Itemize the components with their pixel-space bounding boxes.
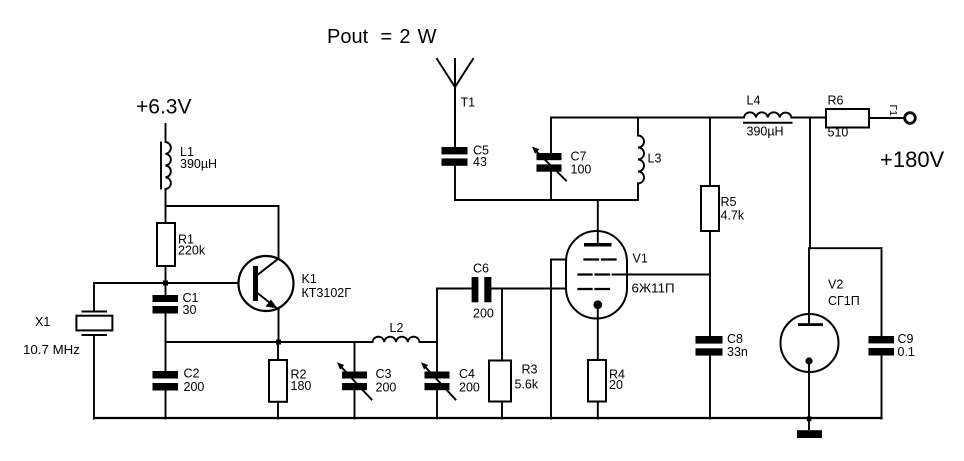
svg-text:+6.3V: +6.3V	[136, 96, 191, 119]
resistor R1	[157, 223, 175, 266]
svg-text:X1: X1	[35, 315, 50, 329]
wire V2 to C9 top	[810, 247, 882, 249]
wire emitter down	[278, 310, 280, 343]
ground	[797, 419, 822, 439]
wire L4 to R6	[792, 117, 827, 119]
resistor R4	[588, 360, 606, 419]
svg-text:33n: 33n	[727, 345, 748, 359]
capacitor C7 (variable)	[532, 147, 566, 181]
svg-text:220k: 220k	[178, 244, 206, 258]
svg-text:180: 180	[291, 379, 312, 393]
capacitor C2	[153, 342, 179, 419]
svg-text:100: 100	[571, 163, 592, 177]
svg-text:30: 30	[183, 303, 197, 317]
svg-text:L3: L3	[648, 152, 662, 166]
resistor R6	[826, 109, 869, 128]
node ground junction	[807, 416, 812, 421]
svg-text:C6: C6	[473, 262, 489, 276]
svg-text:V1: V1	[633, 252, 648, 266]
svg-text:+180V: +180V	[880, 147, 945, 172]
wire emitter rail	[166, 341, 373, 343]
svg-text:L2: L2	[390, 321, 404, 335]
wire base rail	[94, 282, 253, 284]
resistor R3	[489, 289, 511, 419]
tube V1	[566, 200, 627, 360]
svg-text:0.1: 0.1	[898, 345, 915, 359]
svg-text:V2: V2	[828, 278, 843, 292]
resistor R5	[701, 118, 719, 337]
svg-text:Г1: Г1	[887, 105, 899, 117]
crystal X1	[76, 283, 112, 419]
capacitor C3 (variable)	[337, 342, 372, 419]
capacitor C6	[437, 277, 579, 302]
terminal G1	[905, 113, 916, 124]
svg-text:R3: R3	[522, 363, 538, 377]
svg-text:200: 200	[184, 380, 205, 394]
inductor L2	[373, 337, 420, 342]
inductor L4	[744, 112, 792, 123]
svg-text:200: 200	[376, 381, 397, 395]
wire tank bottom	[455, 199, 638, 201]
tube V2	[781, 248, 839, 418]
wire collector vertical	[278, 206, 280, 259]
node emitter junction	[276, 340, 281, 345]
svg-text:C8: C8	[727, 332, 743, 346]
wire R6 to terminal	[869, 117, 903, 119]
svg-text:C2: C2	[184, 367, 200, 381]
svg-text:КТ3102Г: КТ3102Г	[302, 286, 352, 300]
node base junction	[163, 281, 168, 286]
wire tank top	[551, 117, 744, 119]
svg-text:C9: C9	[898, 332, 914, 346]
resistor R2	[269, 342, 287, 419]
svg-text:R6: R6	[828, 94, 844, 108]
svg-text:390µH: 390µH	[180, 157, 217, 171]
wire R1 to node	[165, 266, 167, 295]
inductor L1	[161, 142, 171, 189]
capacitor C9	[869, 336, 895, 419]
wire +6.3V to L1	[165, 124, 167, 142]
svg-text:43: 43	[473, 155, 487, 169]
svg-text:20: 20	[609, 378, 623, 392]
svg-text:L4: L4	[747, 94, 761, 108]
capacitor C8	[696, 336, 723, 419]
svg-text:C4: C4	[459, 367, 475, 381]
wire L2 to C4 node	[420, 341, 438, 343]
wire C7 top lead	[550, 118, 552, 154]
capacitor C1	[153, 295, 179, 314]
wire C5 to tank bottom	[454, 166, 456, 200]
svg-text:510: 510	[828, 126, 849, 140]
svg-text:T1: T1	[461, 96, 476, 110]
transistor K1	[239, 256, 294, 311]
capacitor C5	[442, 147, 468, 166]
svg-text:4.7k: 4.7k	[721, 209, 745, 223]
svg-text:390µH: 390µH	[747, 125, 784, 139]
svg-text:= 2 W: = 2 W	[381, 26, 438, 48]
wire collector feed horizontal	[166, 205, 279, 207]
wire C1 to emitter rail	[165, 314, 167, 343]
svg-text:6Ж11П: 6Ж11П	[632, 281, 675, 296]
svg-text:R5: R5	[721, 195, 737, 209]
wire grid2 to R5	[613, 274, 711, 276]
wire V2 anode branch	[809, 118, 811, 249]
svg-text:C7: C7	[571, 150, 587, 164]
svg-text:5.6k: 5.6k	[515, 378, 539, 392]
svg-text:200: 200	[459, 381, 480, 395]
wire L1 to R1	[165, 189, 167, 223]
capacitor C4 (variable)	[421, 289, 456, 419]
svg-text:СГ1П: СГ1П	[828, 294, 860, 308]
antenna T1	[437, 59, 473, 147]
svg-text:200: 200	[473, 307, 494, 321]
wire ground bus	[94, 417, 882, 419]
svg-text:Pout: Pout	[327, 26, 369, 48]
wire grid3 stub	[551, 259, 585, 261]
wire C9 vertical	[881, 248, 883, 336]
inductor L3	[638, 118, 644, 201]
svg-text:C3: C3	[376, 367, 392, 381]
wire grid3 to ground bus	[550, 260, 552, 419]
svg-text:K1: K1	[302, 272, 317, 286]
wire C7 bottom lead	[550, 172, 552, 200]
svg-text:10.7 MHz: 10.7 MHz	[23, 342, 80, 357]
